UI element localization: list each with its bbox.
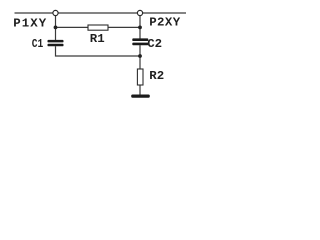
svg-text:P2XY: P2XY bbox=[149, 16, 181, 30]
wire vertical from node P1XY down to C1 bbox=[55, 15, 57, 41]
resistor R1 body bbox=[88, 25, 108, 30]
svg-text:C1: C1 bbox=[32, 37, 44, 51]
junction dot at node C (x=140,y=56) bbox=[138, 54, 142, 58]
ground symbol bar bbox=[131, 95, 150, 98]
capacitor C2 bottom plate bbox=[132, 43, 148, 46]
wire bottom L from C1 bottom to junction under C2 bbox=[56, 46, 141, 56]
wire from R2 bottom to ground bbox=[139, 85, 141, 96]
junction dot at node A (x=55.5,y=27.4) bbox=[54, 26, 58, 30]
junction dot at node B (x=140,y=27.4) bbox=[138, 26, 142, 30]
svg-text:C2: C2 bbox=[147, 37, 162, 51]
node P2XY open terminal circle bbox=[137, 10, 142, 15]
wire top bus bbox=[15, 12, 187, 14]
svg-text:R2: R2 bbox=[149, 69, 164, 83]
svg-text:R1: R1 bbox=[90, 32, 105, 46]
capacitor C1 bottom plate bbox=[48, 44, 64, 47]
node P1XY open terminal circle bbox=[53, 10, 58, 15]
wire vertical from node P2XY down to C2 bbox=[139, 15, 141, 39]
svg-text:P1XY: P1XY bbox=[13, 17, 47, 31]
resistor R2 body bbox=[137, 69, 143, 85]
capacitor C1 top plate bbox=[48, 40, 64, 43]
capacitor C2 top plate bbox=[132, 38, 148, 41]
wire middle (node P1XY to node under P2XY through R1) bbox=[56, 26, 141, 28]
wire from C2 bottom down to R2 bbox=[139, 45, 141, 69]
